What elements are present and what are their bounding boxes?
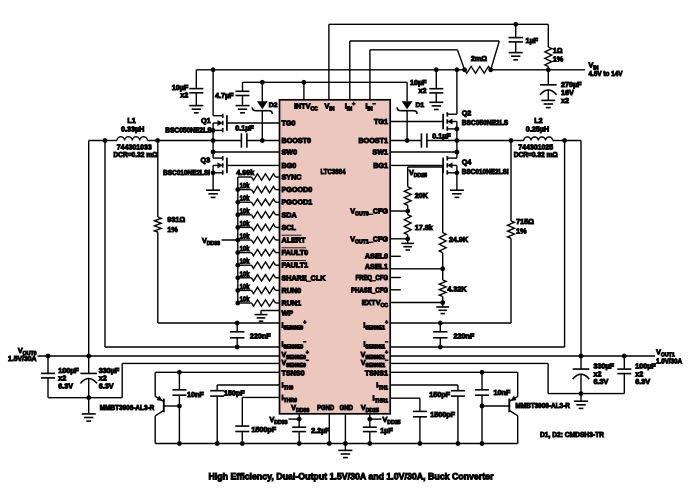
svg-text:MMBT3906-AL3-R: MMBT3906-AL3-R: [100, 403, 155, 412]
svg-text:PGOOD1: PGOOD1: [282, 198, 313, 207]
svg-text:10nF: 10nF: [187, 390, 204, 399]
svg-text:Q2: Q2: [462, 108, 472, 117]
svg-text:x2: x2: [180, 90, 188, 99]
svg-text:10k: 10k: [240, 246, 250, 253]
svg-text:931Ω: 931Ω: [167, 215, 185, 224]
svg-text:DCR=0.32 mΩ: DCR=0.32 mΩ: [113, 150, 157, 159]
svg-text:6.3V: 6.3V: [99, 382, 114, 391]
svg-text:RUN0: RUN0: [282, 286, 302, 295]
svg-text:4.7µF: 4.7µF: [215, 91, 234, 100]
svg-text:10k: 10k: [240, 259, 250, 266]
svg-text:1µF: 1µF: [380, 426, 393, 435]
svg-text:220nF: 220nF: [250, 332, 271, 341]
svg-text:FAULT1: FAULT1: [282, 261, 309, 270]
svg-text:SHARE_CLK: SHARE_CLK: [282, 273, 327, 282]
svg-text:PHASE_CFG: PHASE_CFG: [351, 285, 388, 294]
svg-text:20K: 20K: [415, 191, 429, 200]
svg-text:0.1µF: 0.1µF: [235, 124, 254, 133]
svg-text:BSC010NE2LSI: BSC010NE2LSI: [163, 168, 210, 177]
svg-text:Q1: Q1: [201, 116, 211, 125]
svg-text:BOOST0: BOOST0: [282, 136, 312, 145]
svg-text:SCL: SCL: [282, 223, 297, 232]
svg-text:High Efficiency, Dual-Output 1: High Efficiency, Dual-Output 1.5V/30A an…: [209, 472, 494, 482]
svg-text:10k: 10k: [240, 297, 250, 304]
svg-text:BOOST1: BOOST1: [358, 136, 388, 145]
svg-text:MMBT3906-AL3-R: MMBT3906-AL3-R: [515, 401, 570, 410]
svg-text:TG1: TG1: [374, 117, 388, 126]
svg-text:BSC010NE2LSI: BSC010NE2LSI: [462, 167, 509, 176]
svg-text:FAULT0: FAULT0: [282, 248, 309, 257]
svg-text:x2: x2: [561, 96, 569, 105]
svg-text:150pF: 150pF: [224, 389, 245, 398]
svg-text:D2: D2: [269, 102, 278, 109]
svg-text:BG1: BG1: [373, 161, 388, 170]
svg-text:10k: 10k: [240, 234, 250, 241]
svg-text:6.3V: 6.3V: [58, 382, 73, 391]
svg-text:1µF: 1µF: [526, 36, 539, 45]
svg-text:1.0V/30A: 1.0V/30A: [656, 358, 682, 365]
svg-text:WP: WP: [282, 308, 294, 317]
svg-text:10k: 10k: [240, 284, 250, 291]
svg-text:10k: 10k: [240, 196, 250, 203]
svg-text:10k: 10k: [240, 208, 250, 215]
svg-text:D1, D2: CMDSH3-TR: D1, D2: CMDSH3-TR: [540, 432, 604, 439]
svg-text:Q4: Q4: [462, 157, 472, 166]
svg-text:1.5V/30A: 1.5V/30A: [8, 356, 37, 363]
svg-text:TG0: TG0: [282, 119, 296, 128]
svg-text:SYNC: SYNC: [282, 173, 302, 182]
svg-text:17.8k: 17.8k: [415, 223, 433, 232]
svg-text:6.3V: 6.3V: [635, 377, 650, 386]
svg-text:GND: GND: [340, 403, 354, 412]
svg-text:Q3: Q3: [201, 156, 211, 165]
svg-text:ALERT: ALERT: [282, 236, 307, 245]
svg-text:220nF: 220nF: [454, 332, 475, 341]
svg-text:10nF: 10nF: [494, 388, 511, 397]
svg-text:LTC3884: LTC3884: [321, 167, 347, 176]
svg-text:D1: D1: [416, 102, 425, 109]
svg-text:1%: 1%: [516, 227, 527, 236]
svg-text:SW0: SW0: [282, 148, 298, 157]
svg-text:2.2µF: 2.2µF: [311, 426, 330, 435]
svg-text:PGND: PGND: [317, 403, 334, 412]
svg-text:150pF: 150pF: [429, 390, 450, 399]
svg-text:2mΩ: 2mΩ: [471, 54, 487, 63]
svg-text:0.1µF: 0.1µF: [432, 131, 451, 140]
svg-text:0.25µH: 0.25µH: [526, 125, 549, 134]
svg-text:SDA: SDA: [282, 210, 297, 219]
svg-text:1%: 1%: [167, 225, 178, 234]
svg-text:SW1: SW1: [372, 148, 388, 157]
svg-text:1%: 1%: [553, 55, 564, 64]
svg-text:BSC050NE2LS: BSC050NE2LS: [165, 125, 212, 134]
svg-text:4.99k: 4.99k: [236, 168, 254, 177]
svg-text:10k: 10k: [240, 271, 250, 278]
svg-text:1500pF: 1500pF: [251, 425, 276, 434]
svg-text:10k: 10k: [240, 183, 250, 190]
svg-text:24.9K: 24.9K: [449, 235, 469, 244]
svg-text:4.5V to 14V: 4.5V to 14V: [589, 71, 623, 78]
svg-text:1500pF: 1500pF: [430, 410, 455, 419]
svg-text:BG0: BG0: [282, 161, 297, 170]
svg-text:TSNS0: TSNS0: [282, 369, 305, 378]
svg-text:FREQ_CFG: FREQ_CFG: [356, 273, 389, 282]
svg-text:10k: 10k: [240, 221, 250, 228]
svg-text:ASEL0: ASEL0: [365, 252, 388, 261]
svg-text:4.32K: 4.32K: [447, 284, 467, 293]
svg-text:6.3V: 6.3V: [594, 377, 609, 386]
svg-text:0.33µH: 0.33µH: [121, 125, 144, 134]
svg-text:RUN1: RUN1: [282, 299, 302, 308]
svg-text:DCR=0.32 mΩ: DCR=0.32 mΩ: [514, 150, 558, 159]
svg-text:x2: x2: [419, 86, 427, 95]
svg-text:TSNS1: TSNS1: [365, 369, 388, 378]
svg-text:715Ω: 715Ω: [516, 217, 534, 226]
svg-text:PGOOD0: PGOOD0: [282, 185, 313, 194]
svg-text:ASEL1: ASEL1: [365, 262, 388, 271]
svg-text:BSC050NE2LS: BSC050NE2LS: [462, 118, 509, 127]
